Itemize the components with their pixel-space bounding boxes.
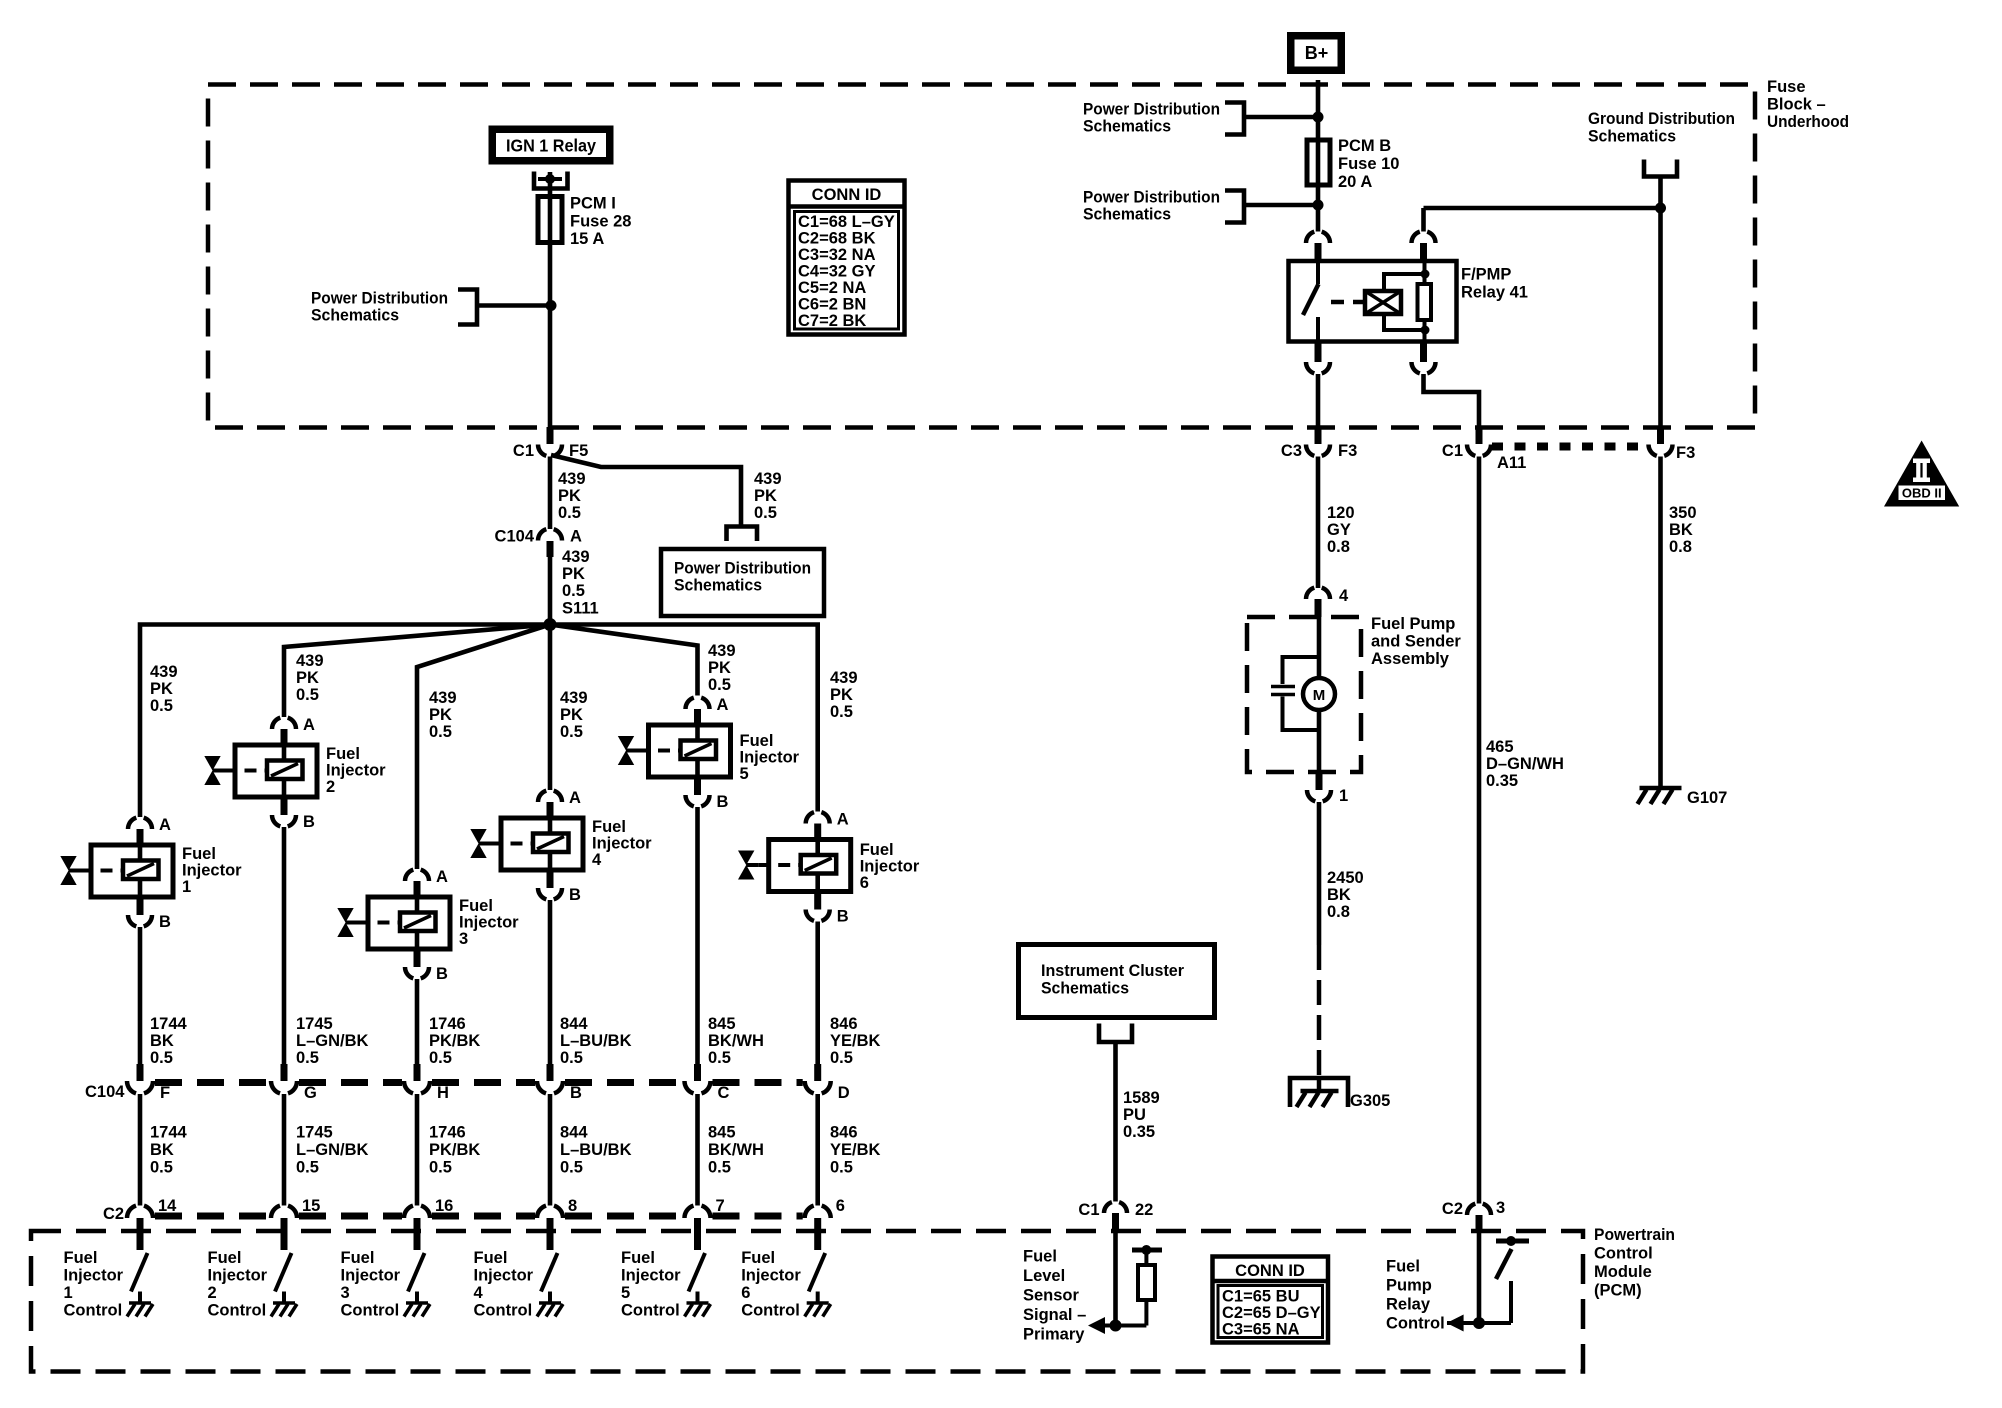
wire: splice branch to injector 3 — [417, 625, 550, 870]
connector pin B of fuel injector 3 — [405, 949, 448, 983]
wire: injector 6 to C104 pin D — [815, 922, 820, 1067]
svg-text:Fuel: Fuel — [1023, 1247, 1057, 1265]
wire: splice branch to injector 2 — [284, 625, 550, 718]
svg-text:Fuel: Fuel — [208, 1249, 242, 1267]
label: circuit 845 (engine side) — [708, 1015, 764, 1067]
svg-text:Signal –: Signal – — [1023, 1306, 1086, 1324]
label: circuit 439 PK 0.5 (injector 6) — [830, 669, 858, 721]
connector F3 (ground feed) — [1649, 427, 1696, 462]
label: Fuel Injector 4 Control — [474, 1249, 534, 1320]
fuel injector 1 component — [60, 845, 173, 897]
label: Fuel Injector 2 Control — [208, 1249, 268, 1320]
svg-text:Relay 41: Relay 41 — [1461, 284, 1528, 302]
svg-text:BK/WH: BK/WH — [708, 1141, 764, 1159]
svg-text:Injector: Injector — [740, 749, 800, 767]
svg-text:A11: A11 — [1497, 454, 1526, 472]
wire: C104 D to PCM C2 pin 6 — [815, 1094, 820, 1206]
wire: C104 to splice S111 — [548, 552, 553, 624]
svg-text:G: G — [304, 1084, 317, 1102]
wire: injector 5 to C104 pin C — [695, 807, 700, 1066]
svg-text:Powertrain: Powertrain — [1594, 1226, 1675, 1244]
svg-text:0.5: 0.5 — [429, 1159, 452, 1177]
junction: coil/resistor top — [1421, 270, 1430, 279]
arrow: fuel level sensor signal - primary — [1088, 1317, 1105, 1334]
wire: pump return inside assembly — [1317, 710, 1322, 772]
wire: power distribution tap — [477, 303, 550, 308]
svg-text:Fuel: Fuel — [740, 732, 774, 750]
svg-text:Injector: Injector — [326, 762, 386, 780]
svg-text:PCM B: PCM B — [1338, 137, 1391, 155]
connector pin A of fuel injector 1 — [128, 816, 171, 845]
svg-text:Fuel: Fuel — [621, 1249, 655, 1267]
svg-text:0.5: 0.5 — [150, 1049, 173, 1067]
svg-text:C1: C1 — [513, 442, 534, 460]
svg-text:PK: PK — [429, 706, 452, 724]
connector C1/F5 — [513, 427, 588, 460]
label: circuit 439 PK 0.5 (tap) — [754, 470, 782, 522]
svg-text:Fuel: Fuel — [64, 1249, 98, 1267]
svg-text:0.5: 0.5 — [429, 723, 452, 741]
svg-text:1746: 1746 — [429, 1124, 466, 1142]
svg-text:Injector: Injector — [592, 835, 652, 853]
svg-text:Sensor: Sensor — [1023, 1286, 1080, 1304]
svg-text:Module: Module — [1594, 1263, 1652, 1281]
svg-text:Injector: Injector — [860, 858, 920, 876]
fuel pump motor — [1303, 678, 1335, 710]
wire: injector 2 to C104 pin G — [282, 827, 287, 1066]
label: circuit 1744 (engine side) — [150, 1015, 188, 1067]
svg-text:G305: G305 — [1350, 1092, 1390, 1110]
svg-text:PK: PK — [754, 487, 777, 505]
svg-text:7: 7 — [716, 1197, 725, 1215]
label: circuit 439 PK 0.5 (injector 3) — [429, 689, 457, 741]
svg-text:0.35: 0.35 — [1486, 772, 1518, 790]
svg-text:Pump: Pump — [1386, 1277, 1432, 1295]
svg-text:844: 844 — [560, 1124, 588, 1142]
svg-text:YE/BK: YE/BK — [830, 1032, 881, 1050]
label: circuit 1746 (PCM side) — [429, 1124, 480, 1177]
svg-text:C6=2 BN: C6=2 BN — [798, 296, 866, 314]
svg-text:465: 465 — [1486, 738, 1514, 756]
fuel injector 4 component — [470, 818, 583, 870]
label: Fuel Injector 5 — [740, 732, 800, 783]
label: circuit 439 PK 0.5 (injector 5) — [708, 642, 736, 694]
relay pin: switch output (bottom left) — [1306, 341, 1330, 373]
svg-text:0.5: 0.5 — [562, 582, 585, 600]
connector pin B of fuel injector 6 — [806, 892, 849, 926]
svg-text:0.5: 0.5 — [296, 1049, 319, 1067]
svg-text:BK: BK — [150, 1141, 174, 1159]
wire: splice branch to injector 6 — [550, 625, 818, 812]
fuel injector 6 component — [738, 840, 851, 892]
label: Fuel Injector 4 — [592, 818, 652, 869]
svg-text:Control: Control — [474, 1302, 533, 1320]
svg-text:Fuel: Fuel — [592, 818, 626, 836]
svg-text:B: B — [837, 908, 849, 926]
svg-text:0.8: 0.8 — [1327, 903, 1350, 921]
svg-text:PK: PK — [562, 565, 585, 583]
wire: 350 BK to G107 — [1658, 457, 1663, 789]
svg-text:C2: C2 — [1442, 1200, 1463, 1218]
svg-text:Primary: Primary — [1023, 1325, 1085, 1343]
svg-text:F3: F3 — [1676, 444, 1695, 462]
fuel injector 3 driver switch in PCM — [408, 1253, 425, 1292]
svg-text:439: 439 — [754, 470, 782, 488]
svg-text:Power Distribution: Power Distribution — [674, 560, 811, 578]
svg-text:Injector: Injector — [341, 1267, 401, 1285]
connector C2 pin 3 — [1442, 1199, 1505, 1232]
relay switch contact — [1303, 261, 1319, 341]
svg-text:L–BU/BK: L–BU/BK — [560, 1032, 632, 1050]
svg-text:439: 439 — [560, 689, 588, 707]
svg-text:PK: PK — [296, 669, 319, 687]
wire: upper power distribution tap — [1244, 115, 1318, 120]
svg-text:G107: G107 — [1687, 789, 1727, 807]
relay resistor branch — [1418, 261, 1432, 341]
svg-text:0.5: 0.5 — [830, 1159, 853, 1177]
svg-text:16: 16 — [435, 1197, 453, 1215]
fuse PCM B Fuse 10 20 A — [1307, 140, 1330, 185]
fuse PCM I Fuse 28 15 A — [538, 197, 562, 243]
wire: relay coil return to C1/A11 — [1424, 374, 1480, 429]
svg-text:Injector: Injector — [741, 1267, 801, 1285]
fuel pump relay driver switch in PCM — [1479, 1232, 1529, 1323]
svg-text:439: 439 — [562, 548, 590, 566]
relay coil — [1365, 291, 1401, 314]
svg-text:3: 3 — [459, 930, 468, 948]
svg-text:C7=2 BK: C7=2 BK — [798, 312, 866, 330]
label: circuit 439 PK 0.5 (injector 1) — [150, 663, 178, 715]
svg-text:B: B — [436, 965, 448, 983]
svg-text:C4=32 GY: C4=32 GY — [798, 263, 876, 281]
power distribution schematics reference (lower) — [1083, 189, 1244, 224]
svg-text:22: 22 — [1135, 1201, 1153, 1219]
wire: C104 G to PCM C2 pin 15 — [282, 1094, 287, 1206]
label: circuit 845 (PCM side) — [708, 1124, 764, 1177]
label: Fuel Injector 5 Control — [621, 1249, 681, 1320]
wire: 2450 BK pump ground — [1317, 802, 1322, 945]
CONN ID table (PCM connectors) — [1213, 1257, 1329, 1343]
svg-text:A: A — [717, 696, 729, 714]
label: Fuel Pump and Sender Assembly — [1371, 615, 1461, 668]
connector C104 pin C — [685, 1064, 730, 1102]
label: circuit 2450 BK 0.8 — [1327, 869, 1364, 921]
label: circuit 120 GY 0.8 — [1327, 504, 1355, 556]
svg-text:0.5: 0.5 — [830, 1049, 853, 1067]
svg-text:C104: C104 — [495, 528, 535, 546]
svg-text:D: D — [838, 1084, 850, 1102]
wire: pump feed inside assembly — [1317, 617, 1322, 678]
wire: C104 C to PCM C2 pin 7 — [695, 1094, 700, 1206]
svg-text:0.5: 0.5 — [296, 1159, 319, 1177]
svg-text:Power Distribution: Power Distribution — [1083, 101, 1220, 119]
svg-text:0.8: 0.8 — [1327, 538, 1350, 556]
junction: fuel pump relay control — [1473, 1317, 1485, 1329]
svg-text:A: A — [303, 716, 315, 734]
svg-text:439: 439 — [296, 652, 324, 670]
svg-text:C1: C1 — [1078, 1201, 1099, 1219]
svg-text:A: A — [436, 868, 448, 886]
IGN 1 relay terminal symbol — [534, 172, 568, 189]
fuel injector 2 component — [204, 745, 317, 797]
label: circuit 1746 (engine side) — [429, 1015, 480, 1067]
svg-text:Fuel: Fuel — [474, 1249, 508, 1267]
connector pin B of fuel injector 2 — [272, 797, 315, 831]
svg-text:439: 439 — [830, 669, 858, 687]
svg-text:F3: F3 — [1338, 442, 1357, 460]
svg-text:S111: S111 — [562, 600, 599, 618]
wire: C1/F5 to C104 — [548, 457, 553, 530]
connector pin B of fuel injector 1 — [128, 897, 171, 931]
label: circuit 439 PK 0.5 (main feed) — [558, 470, 586, 522]
junction at ground distribution wire — [1655, 203, 1666, 214]
label: Fuel Injector 3 — [459, 897, 519, 948]
wire: splice branch to injector 4 — [548, 625, 553, 791]
wire: 439 PK tap to power distribution — [551, 455, 741, 527]
svg-text:Control: Control — [341, 1302, 400, 1320]
label: PCM I Fuse 28 15 A — [570, 195, 631, 249]
svg-text:844: 844 — [560, 1015, 588, 1033]
svg-text:1: 1 — [64, 1284, 73, 1302]
svg-text:Ground Distribution: Ground Distribution — [1588, 110, 1735, 128]
connector pin 1 of fuel pump — [1307, 770, 1348, 805]
svg-text:0.5: 0.5 — [150, 1159, 173, 1177]
fuel pump and sender assembly enclosure — [1247, 617, 1361, 772]
svg-text:BK: BK — [1669, 521, 1693, 539]
svg-text:F/PMP: F/PMP — [1461, 266, 1511, 284]
B+ battery feed box — [1291, 36, 1342, 71]
label: Fuel Level Sensor Signal - Primary — [1023, 1247, 1086, 1343]
svg-text:6: 6 — [741, 1284, 750, 1302]
label: Fuse Block - Underhood — [1767, 78, 1849, 131]
svg-text:Fuel: Fuel — [341, 1249, 375, 1267]
connector line C104 (dashed) — [155, 1079, 803, 1086]
svg-text:4: 4 — [1339, 587, 1349, 605]
svg-text:Relay: Relay — [1386, 1296, 1431, 1314]
connector pin 4 of fuel pump — [1306, 587, 1349, 617]
svg-text:0.5: 0.5 — [150, 697, 173, 715]
label: Powertrain Control Module (PCM) — [1594, 1226, 1675, 1300]
svg-text:3: 3 — [341, 1284, 350, 1302]
wire: lower power distribution tap — [1244, 203, 1318, 208]
driver ground (injector 4) — [548, 1292, 552, 1303]
wire: 465 D-GN/WH fuel pump relay control — [1477, 457, 1482, 1204]
svg-text:4: 4 — [592, 851, 602, 869]
connector line C2 (dashed) — [155, 1213, 803, 1220]
relay actuation dashed link — [1331, 300, 1365, 305]
svg-text:YE/BK: YE/BK — [830, 1141, 881, 1159]
svg-text:C1=68 L–GY: C1=68 L–GY — [798, 213, 895, 231]
instrument cluster schematics box — [1019, 945, 1215, 1018]
svg-text:846: 846 — [830, 1015, 858, 1033]
svg-text:4: 4 — [474, 1284, 484, 1302]
svg-text:1745: 1745 — [296, 1124, 333, 1142]
svg-text:A: A — [570, 528, 582, 546]
label: circuit 465 D-GN/WH 0.35 — [1486, 738, 1564, 790]
junction: fuel level signal — [1110, 1320, 1122, 1332]
svg-text:3: 3 — [1496, 1199, 1505, 1217]
wire: 2450 BK continuation (dashed) — [1317, 945, 1322, 1091]
svg-text:B: B — [159, 913, 171, 931]
svg-text:Fuse 28: Fuse 28 — [570, 213, 631, 231]
svg-text:Schematics: Schematics — [674, 577, 762, 595]
svg-text:120: 120 — [1327, 504, 1355, 522]
fuel injector 1 driver switch in PCM — [131, 1253, 148, 1292]
svg-text:L–GN/BK: L–GN/BK — [296, 1141, 369, 1159]
relay F/PMP Relay 41 box — [1289, 261, 1457, 342]
svg-text:1: 1 — [182, 878, 191, 896]
svg-text:IGN 1 Relay: IGN 1 Relay — [506, 136, 596, 156]
svg-text:PK: PK — [558, 487, 581, 505]
svg-text:1: 1 — [1339, 787, 1348, 805]
svg-text:Level: Level — [1023, 1267, 1065, 1285]
connector C104 pin F — [127, 1064, 170, 1102]
svg-text:CONN ID: CONN ID — [812, 186, 882, 204]
svg-text:CONN ID: CONN ID — [1235, 1262, 1305, 1280]
IGN 1 Relay label box — [492, 129, 610, 161]
svg-text:Assembly: Assembly — [1371, 650, 1450, 668]
junction on IGN1 feed — [546, 300, 557, 311]
svg-text:Schematics: Schematics — [1083, 206, 1171, 224]
svg-text:0.5: 0.5 — [708, 1159, 731, 1177]
CONN ID table (fuse block connectors) — [789, 181, 905, 335]
svg-text:Schematics: Schematics — [311, 307, 399, 325]
label: Fuel Injector 6 — [860, 841, 920, 892]
svg-text:H: H — [437, 1084, 449, 1102]
svg-text:C3: C3 — [1281, 442, 1302, 460]
svg-text:845: 845 — [708, 1015, 736, 1033]
svg-text:Fuse 10: Fuse 10 — [1338, 155, 1399, 173]
svg-text:0.5: 0.5 — [830, 703, 853, 721]
svg-text:GY: GY — [1327, 521, 1351, 539]
svg-text:0.5: 0.5 — [296, 686, 319, 704]
svg-text:15 A: 15 A — [570, 230, 604, 248]
connector C1/A11 — [1442, 427, 1526, 472]
svg-text:439: 439 — [429, 689, 457, 707]
connector C2 pin 7 — [685, 1197, 725, 1250]
svg-text:Underhood: Underhood — [1767, 113, 1849, 131]
svg-text:C2=65 D–GY: C2=65 D–GY — [1222, 1304, 1321, 1322]
wire: 120 GY to fuel pump — [1316, 457, 1321, 589]
svg-text:D–GN/WH: D–GN/WH — [1486, 755, 1564, 773]
connector pin A of fuel injector 2 — [272, 716, 315, 745]
svg-text:0.5: 0.5 — [708, 1049, 731, 1067]
svg-text:Fuel: Fuel — [741, 1249, 775, 1267]
svg-text:and Sender: and Sender — [1371, 633, 1461, 651]
label: F/PMP Relay 41 — [1461, 266, 1528, 302]
label: Fuel Pump Relay Control — [1386, 1258, 1445, 1333]
ground G305 — [1290, 1078, 1390, 1110]
svg-text:14: 14 — [158, 1197, 177, 1215]
svg-text:0.5: 0.5 — [560, 723, 583, 741]
svg-text:A: A — [159, 816, 171, 834]
wire: ground distribution to F3 — [1658, 177, 1663, 430]
svg-text:Schematics: Schematics — [1041, 980, 1129, 998]
svg-text:2: 2 — [326, 778, 335, 796]
label: circuit 439 PK 0.5 (injector 2) — [296, 652, 324, 704]
driver ground (injector 1) — [138, 1292, 142, 1303]
relay pin: coil ground (bottom right) — [1412, 341, 1436, 373]
wire: splice branch to injector 5 — [550, 625, 698, 696]
svg-text:BK: BK — [150, 1032, 174, 1050]
svg-text:C104: C104 — [85, 1083, 125, 1101]
wire: C104 B to PCM C2 pin 8 — [548, 1094, 553, 1206]
wire: splice branch to injector 1 — [140, 625, 550, 818]
svg-text:Injector: Injector — [459, 914, 519, 932]
svg-text:C2=68 BK: C2=68 BK — [798, 230, 876, 248]
svg-text:350: 350 — [1669, 504, 1697, 522]
connector pin A of fuel injector 6 — [806, 811, 849, 840]
svg-text:L–BU/BK: L–BU/BK — [560, 1141, 632, 1159]
svg-text:Control: Control — [64, 1302, 123, 1320]
svg-text:Injector: Injector — [621, 1267, 681, 1285]
svg-text:Fuel: Fuel — [459, 897, 493, 915]
svg-text:B: B — [717, 793, 729, 811]
svg-text:B+: B+ — [1305, 43, 1329, 63]
connector pin A of fuel injector 5 — [686, 696, 729, 725]
svg-text:1589: 1589 — [1123, 1089, 1160, 1107]
svg-text:F5: F5 — [569, 442, 588, 460]
label: circuit 1745 (PCM side) — [296, 1124, 369, 1177]
svg-text:Schematics: Schematics — [1083, 118, 1171, 136]
power distribution schematics reference (upper) — [1083, 101, 1244, 136]
arrow: fuel pump relay control — [1447, 1315, 1479, 1332]
ground G107 — [1638, 788, 1728, 807]
svg-text:439: 439 — [558, 470, 586, 488]
instrument cluster in-line bracket — [1099, 1024, 1132, 1043]
label: Fuel Injector 1 — [182, 845, 242, 896]
wire: injector 1 to C104 pin F — [138, 927, 143, 1066]
svg-text:6: 6 — [860, 874, 869, 892]
wire: IGN 1 relay to connector C1/F5 — [548, 172, 553, 444]
svg-text:Fuel: Fuel — [1386, 1258, 1420, 1276]
svg-text:0.5: 0.5 — [429, 1049, 452, 1067]
connector C2 pin 6 — [805, 1197, 845, 1250]
fuel injector 2 driver switch in PCM — [275, 1253, 292, 1292]
connector pin B of fuel injector 5 — [686, 777, 729, 811]
label: circuit 844 (PCM side) — [560, 1124, 632, 1177]
connector C1 pin 22 — [1078, 1201, 1153, 1232]
svg-text:0.5: 0.5 — [560, 1049, 583, 1067]
fuel level sensor signal branch in PCM — [1092, 1232, 1162, 1326]
svg-text:6: 6 — [836, 1197, 845, 1215]
connector C3/F3 — [1281, 427, 1357, 460]
svg-text:845: 845 — [708, 1124, 736, 1142]
svg-text:15: 15 — [302, 1197, 320, 1215]
svg-text:Control: Control — [741, 1302, 800, 1320]
svg-text:Schematics: Schematics — [1588, 128, 1676, 146]
svg-text:8: 8 — [568, 1197, 577, 1215]
ground distribution schematics reference — [1588, 110, 1735, 177]
svg-text:0.5: 0.5 — [708, 676, 731, 694]
svg-text:PK: PK — [708, 659, 731, 677]
label: circuit 846 (PCM side) — [830, 1124, 881, 1177]
svg-text:Injector: Injector — [474, 1267, 534, 1285]
label: circuit 439 PK 0.5 (injector 4) — [560, 689, 588, 741]
svg-text:C5=2 NA: C5=2 NA — [798, 279, 866, 297]
fuel injector 3 component — [337, 897, 450, 949]
svg-text:Fuel: Fuel — [860, 841, 894, 859]
svg-text:5: 5 — [621, 1284, 630, 1302]
svg-text:Fuel: Fuel — [326, 745, 360, 763]
svg-text:1744: 1744 — [150, 1015, 188, 1033]
jumper: A11 to F3 (dotted) — [1492, 443, 1647, 451]
wire: injector 3 to C104 pin H — [415, 979, 420, 1066]
svg-text:(PCM): (PCM) — [1594, 1282, 1642, 1300]
svg-text:B: B — [570, 1084, 582, 1102]
svg-text:C: C — [718, 1084, 730, 1102]
junction below PCM B fuse — [1313, 200, 1324, 211]
